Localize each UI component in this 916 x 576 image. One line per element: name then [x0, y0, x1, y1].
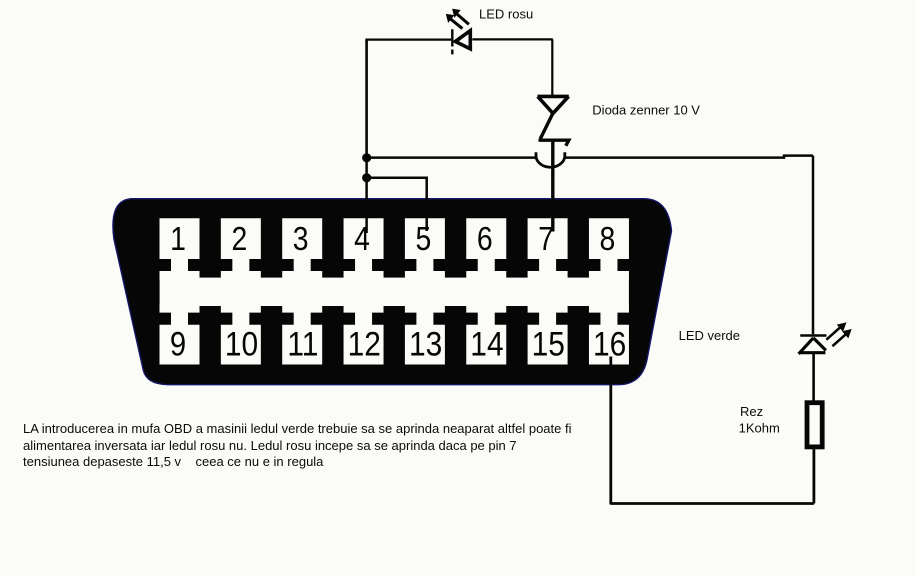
LED verde triangle: [799, 338, 826, 354]
LED verde arrow 2: [832, 334, 846, 346]
connector pin 6 slot: [466, 218, 506, 279]
connector pin 3 slot: [282, 218, 322, 279]
zener cathode bar with end tick: [539, 140, 569, 146]
wire top horizontal right segment from LED rosu to corner: [472, 39, 553, 95]
svg-text:Dioda zenner 10 V: Dioda zenner 10 V: [592, 102, 700, 117]
resistor body: [807, 403, 822, 447]
note paragraph: [23, 421, 572, 471]
connector pin 5 slot: [405, 218, 445, 279]
wire right vertical down to LED verde: [812, 156, 815, 335]
connector pin 14 slot: [466, 304, 506, 364]
svg-text:1Kohm: 1Kohm: [739, 420, 780, 435]
connector pin 8 slot: [589, 218, 629, 279]
svg-text:LED rosu: LED rosu: [479, 6, 533, 21]
LED rosu arrow 1: [451, 19, 463, 28]
svg-text:6: 6: [477, 220, 493, 258]
zener diode triangle: [538, 96, 569, 113]
connector pin 1 slot: [160, 218, 200, 279]
connector pin 10 slot: [221, 304, 261, 364]
wire bottom horizontal: [611, 502, 814, 505]
connector pin 7 slot: [528, 218, 568, 279]
wire from pin 16 down to bottom horizontal: [609, 357, 612, 505]
junction dot lower: [362, 173, 371, 182]
svg-text:11: 11: [287, 325, 318, 363]
wire left vertical from pin4 node up to LED rosu row: [365, 40, 368, 158]
junction dot upper: [362, 153, 371, 162]
LED rosu triangle: [455, 31, 470, 49]
wire zener stem down to pin 7: [551, 140, 554, 231]
svg-text:8: 8: [600, 220, 616, 258]
svg-text:Rez: Rez: [740, 404, 763, 419]
connector pin 15 slot: [528, 304, 568, 364]
wire from lower junction to pin 5: [367, 178, 427, 231]
connector pin 11 slot: [282, 304, 322, 364]
svg-text:13: 13: [409, 325, 442, 363]
svg-text:14: 14: [470, 325, 503, 363]
zener diagonal stroke: [540, 113, 553, 139]
svg-text:5: 5: [416, 220, 432, 258]
LED verde cathode bar: [800, 334, 826, 337]
svg-text:1: 1: [170, 220, 186, 258]
OBD connector shell: [113, 199, 672, 385]
svg-text:15: 15: [532, 325, 565, 363]
connector pin 13 slot: [405, 304, 445, 364]
wire from upper junction down to pin 4: [365, 158, 368, 233]
connector pin 12 slot: [344, 304, 384, 364]
connector pin 9 slot: [160, 304, 200, 364]
LED verde arrow 1: [826, 327, 840, 340]
LED rosu cathode bar: [451, 29, 453, 54]
LED rosu arrow 2: [457, 14, 469, 24]
svg-text:9: 9: [170, 325, 186, 364]
connector pin 2 slot: [221, 218, 261, 279]
svg-text:2: 2: [231, 220, 247, 258]
wire hop over zener stem: [536, 152, 565, 167]
connector pin 4 slot: [344, 218, 384, 279]
svg-text:12: 12: [348, 325, 381, 363]
svg-text:LED verde: LED verde: [679, 328, 740, 343]
svg-text:3: 3: [293, 220, 309, 258]
wire top horizontal left segment to LED rosu anode: [365, 38, 451, 40]
wire resistor to bottom corner: [813, 449, 816, 503]
wire main horizontal line y157: [367, 156, 536, 159]
connector centre band: [160, 278, 629, 306]
wire main horizontal line right of hop: [565, 156, 813, 158]
svg-text:10: 10: [225, 325, 258, 363]
wire LED verde to resistor: [812, 353, 815, 401]
connector pin 16 slot: [589, 304, 629, 364]
